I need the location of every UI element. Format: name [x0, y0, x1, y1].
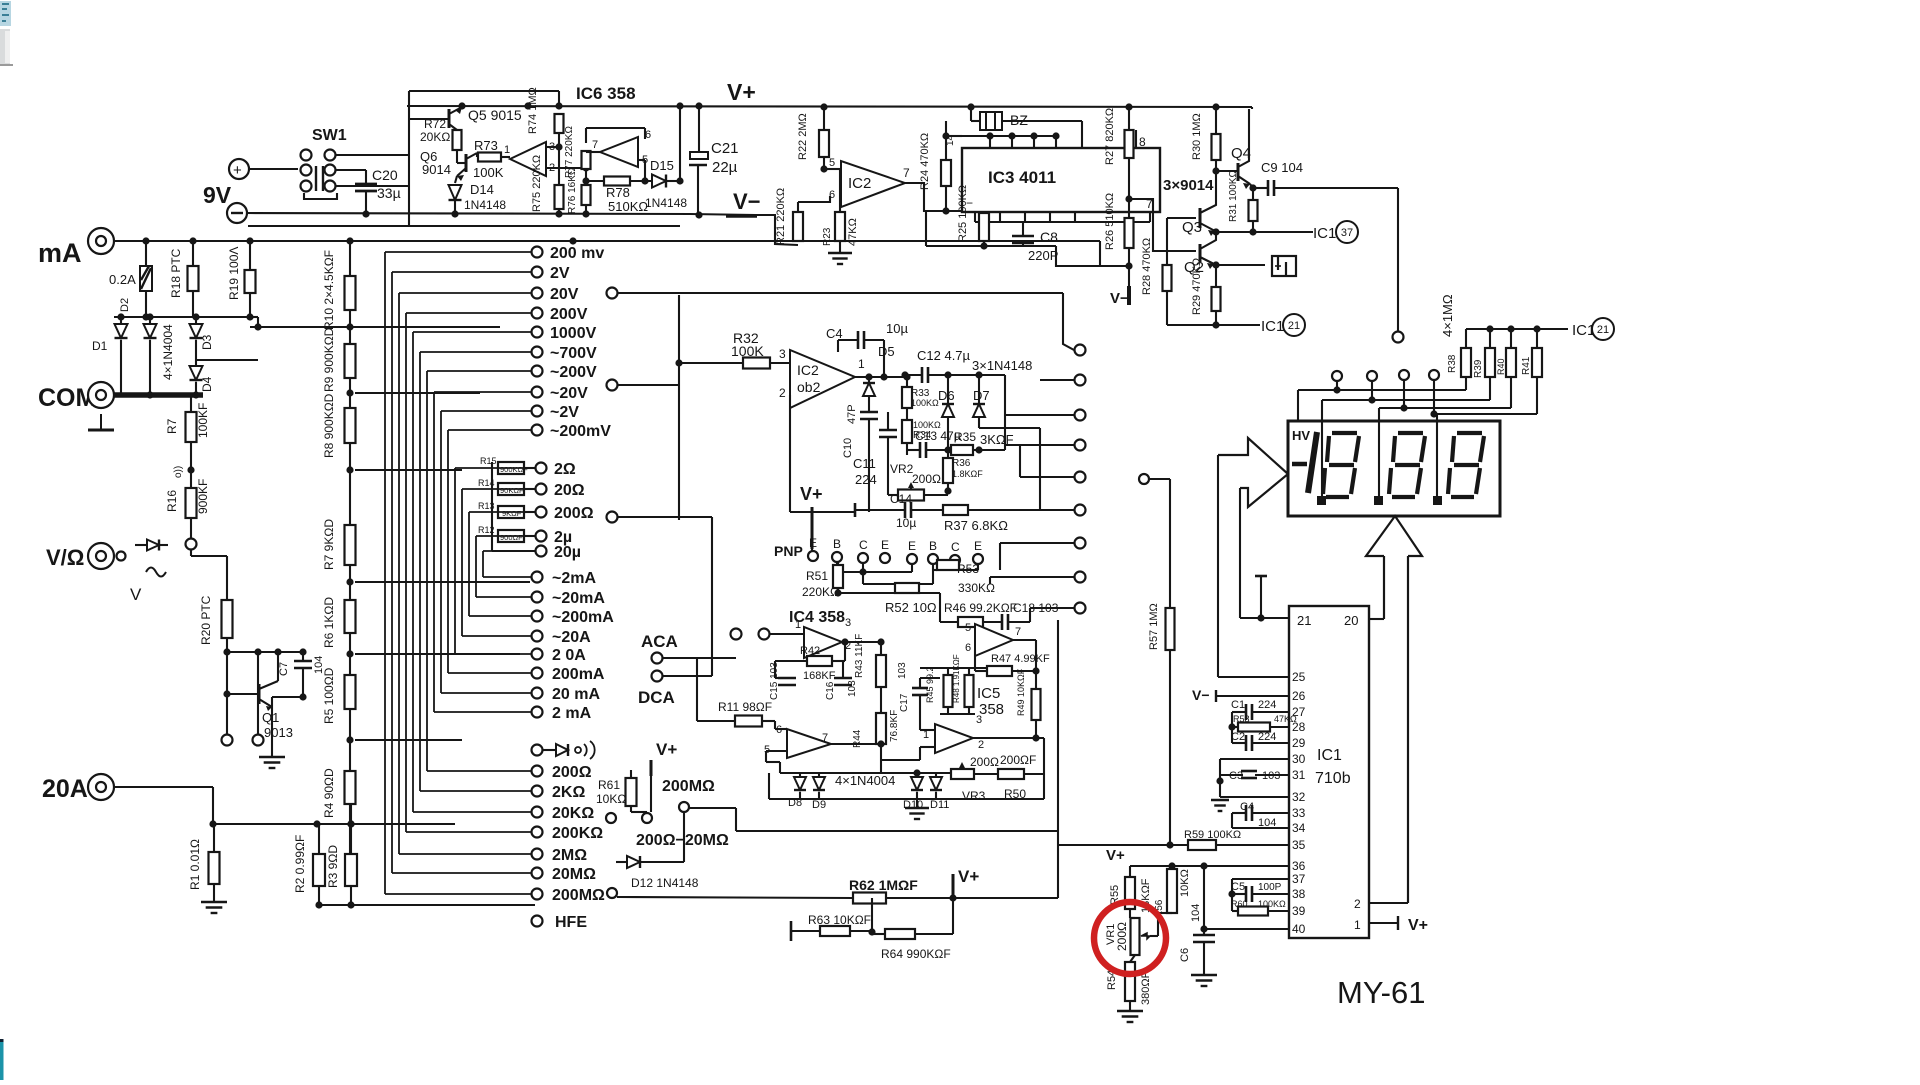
wire: [249, 168, 298, 170]
transistor Q1 9013: [258, 684, 261, 704]
svg-text:R57 1MΩ: R57 1MΩ: [1148, 603, 1160, 650]
selector contact ~20A: [532, 631, 543, 642]
wire pin2: [1369, 902, 1408, 904]
resistor R3 9D: [345, 854, 357, 886]
resistor R77 220K: [582, 151, 591, 169]
svg-text:V: V: [130, 585, 142, 604]
svg-text:224: 224: [1258, 699, 1276, 711]
wire: [349, 633, 351, 675]
svg-text:30: 30: [1292, 752, 1306, 766]
display decimal points: [1317, 496, 1326, 505]
svg-text:R4 90ΩD: R4 90ΩD: [322, 768, 336, 818]
svg-text:47P: 47P: [846, 404, 858, 424]
svg-text:R6 1KΩD: R6 1KΩD: [322, 597, 336, 648]
svg-text:9KΩF: 9KΩF: [502, 509, 522, 518]
svg-text:R35: R35: [954, 430, 976, 444]
diode D2: [149, 317, 151, 324]
svg-text:200MΩ: 200MΩ: [552, 887, 605, 904]
diode D9: [818, 773, 820, 777]
svg-text:26: 26: [1292, 689, 1306, 703]
wire display seg1: [1336, 381, 1338, 390]
svg-text:20KΩ: 20KΩ: [552, 805, 594, 822]
resistor R52 10: [895, 583, 919, 593]
wire: [770, 633, 804, 635]
selector contact 200KΩ: [532, 827, 543, 838]
wire: [607, 380, 618, 391]
resistor R25 100K: [979, 213, 989, 241]
svg-text:200Ω−20MΩ: 200Ω−20MΩ: [636, 832, 729, 849]
transistor Q5 9015: [448, 109, 451, 128]
svg-text:358: 358: [979, 701, 1004, 718]
resistor R73 100K: [477, 156, 478, 158]
wire: [546, 167, 586, 169]
svg-text:168KF: 168KF: [803, 670, 836, 682]
svg-text:200Ω: 200Ω: [970, 755, 999, 769]
ground: [905, 807, 929, 809]
svg-text:C6: C6: [1179, 948, 1191, 962]
svg-text:R72: R72: [424, 117, 446, 131]
display minus sign: [1292, 462, 1307, 467]
svg-text:R18 PTC: R18 PTC: [169, 248, 183, 298]
svg-text:R2 0.99ΩF: R2 0.99ΩF: [293, 835, 307, 893]
resistor R14 90KF: [498, 483, 524, 495]
selector contact 2KΩ: [532, 786, 543, 797]
svg-text:900ΩF: 900ΩF: [500, 533, 523, 542]
svg-text:20µ: 20µ: [554, 544, 581, 561]
svg-text:R19 100Λ: R19 100Λ: [227, 247, 241, 300]
svg-text:~2V: ~2V: [550, 404, 579, 421]
svg-text:2: 2: [779, 386, 786, 400]
svg-text:R39: R39: [1473, 359, 1484, 378]
svg-text:V+: V+: [1408, 917, 1428, 934]
wire: [349, 378, 351, 408]
svg-text:7: 7: [822, 732, 828, 744]
ground: [259, 756, 285, 758]
resistor R21 220K: [793, 212, 803, 241]
resistor R76 16K: [582, 185, 591, 205]
svg-text:10µ: 10µ: [886, 321, 908, 336]
svg-text:200KΩ: 200KΩ: [552, 825, 603, 842]
svg-text:R3 9ΩD: R3 9ΩD: [326, 845, 340, 888]
svg-text:V−: V−: [733, 189, 761, 214]
resistor R75 220K: [558, 147, 560, 185]
svg-text:21: 21: [1297, 613, 1311, 628]
op-amp IC5b: [975, 624, 1013, 656]
svg-text:200Ω: 200Ω: [554, 505, 594, 522]
op-amp IC6b: [600, 137, 638, 167]
svg-text:ob2: ob2: [797, 379, 821, 395]
svg-text:IC2: IC2: [848, 175, 871, 192]
svg-text:2Ω: 2Ω: [554, 461, 576, 478]
svg-text:20Ω: 20Ω: [554, 482, 585, 499]
wire: [1397, 188, 1399, 331]
svg-text:1: 1: [1354, 918, 1361, 932]
svg-text:5: 5: [829, 157, 835, 169]
svg-text:C20: C20: [372, 167, 398, 183]
svg-text:R47 4.99KF: R47 4.99KF: [991, 653, 1050, 665]
svg-text:D2: D2: [119, 298, 131, 312]
svg-text:R61: R61: [598, 778, 620, 792]
svg-text:R20 PTC: R20 PTC: [199, 595, 213, 645]
svg-text:2V: 2V: [550, 265, 570, 282]
wire IC1-37: [1216, 231, 1313, 233]
svg-text:5: 5: [965, 622, 971, 634]
svg-text:8: 8: [1139, 135, 1146, 149]
svg-text:R15: R15: [480, 456, 497, 466]
svg-text:Q1: Q1: [262, 710, 279, 725]
svg-text:4×1N4004: 4×1N4004: [161, 324, 175, 380]
selector contact ~20mA: [532, 592, 543, 603]
resistor R13 9KF: [498, 506, 524, 518]
resistor R23 47K: [835, 212, 845, 241]
op-amp IC4b: [787, 729, 831, 758]
wire: [226, 638, 228, 652]
diode D10: [916, 773, 918, 777]
svg-text:~20V: ~20V: [550, 385, 588, 402]
svg-text:36: 36: [1292, 859, 1306, 873]
svg-text:D8: D8: [788, 797, 802, 809]
svg-text:4×1N4004: 4×1N4004: [835, 773, 895, 788]
resistor R78 510K: [604, 177, 630, 186]
svg-text:1.8KΩF: 1.8KΩF: [952, 469, 983, 479]
svg-text:IC2: IC2: [797, 362, 819, 378]
svg-text:2KΩ: 2KΩ: [552, 784, 585, 801]
wire: [349, 310, 351, 344]
svg-text:20A: 20A: [42, 775, 88, 803]
ground: [828, 252, 852, 254]
svg-text:R45 99.2: R45 99.2: [925, 666, 935, 703]
svg-text:C11: C11: [853, 456, 876, 471]
wire: [349, 709, 351, 771]
svg-text:103: 103: [897, 662, 908, 679]
ground: [1211, 799, 1229, 801]
svg-text:D7: D7: [973, 388, 990, 403]
wire: [630, 770, 632, 778]
svg-text:ACA: ACA: [641, 632, 678, 651]
resistor R7 100KF: [190, 395, 192, 412]
svg-text:2: 2: [978, 739, 984, 751]
svg-text:D1: D1: [92, 339, 108, 353]
svg-text:R50: R50: [1004, 787, 1026, 801]
svg-text:R28 470KΩ: R28 470KΩ: [1141, 238, 1153, 295]
svg-text:HFE: HFE: [555, 914, 587, 931]
selector contact 2µ: [536, 531, 547, 542]
capacitor C7 104: [302, 652, 304, 661]
svg-text:R1 0.01Ω: R1 0.01Ω: [188, 839, 202, 890]
svg-text:9013: 9013: [264, 725, 293, 740]
selector contact ~200mV: [532, 425, 543, 436]
arrow into display: [1218, 438, 1288, 507]
svg-text:~200mA: ~200mA: [552, 609, 614, 626]
wire: [190, 550, 192, 556]
svg-text:R78: R78: [606, 185, 630, 200]
svg-text:4×1MΩ: 4×1MΩ: [1440, 294, 1455, 337]
svg-text:2: 2: [1354, 897, 1361, 911]
svg-text:C7: C7: [278, 662, 290, 676]
svg-text:1000V: 1000V: [550, 325, 597, 342]
wire resistor group: [491, 462, 493, 540]
svg-text:R41: R41: [1521, 356, 1532, 375]
resistor R72 20K: [453, 130, 462, 150]
wire taps: [250, 326, 500, 328]
wire: [831, 743, 881, 745]
selector contact ~200mA: [532, 611, 543, 622]
svg-text:R36: R36: [952, 458, 971, 469]
display digit 1: [1308, 432, 1317, 493]
ground: [1117, 1010, 1143, 1012]
svg-text:R31 100KΩ: R31 100KΩ: [1228, 170, 1239, 222]
svg-text:37: 37: [1341, 227, 1353, 239]
svg-text:3: 3: [779, 347, 786, 361]
svg-text:1: 1: [858, 357, 865, 371]
resistor R53 330K: [937, 560, 959, 570]
resistor R28 470K: [1163, 265, 1172, 291]
svg-text:200Ω: 200Ω: [1115, 922, 1129, 951]
resistor R9 900KD: [345, 344, 356, 378]
svg-text:+: +: [233, 162, 242, 179]
svg-text:C: C: [951, 540, 960, 554]
svg-text:900KΩF: 900KΩF: [500, 465, 528, 474]
svg-text:31: 31: [1292, 768, 1306, 782]
svg-text:mA: mA: [38, 238, 82, 268]
svg-text:1N4148: 1N4148: [464, 198, 506, 212]
svg-text:D11: D11: [930, 799, 949, 811]
selector contact 2V: [532, 267, 543, 278]
svg-text:R74 1MΩ: R74 1MΩ: [527, 87, 539, 134]
resistor R5 100D: [345, 675, 356, 709]
svg-text:33: 33: [1292, 806, 1306, 820]
wire: [756, 215, 798, 245]
svg-text:R62 1MΩF: R62 1MΩF: [849, 877, 918, 893]
svg-text:R24 470KΩ: R24 470KΩ: [919, 133, 931, 190]
resistor R10 2x4.5KF: [349, 241, 351, 276]
svg-text:C17: C17: [899, 693, 910, 712]
resistor R39: [1485, 348, 1495, 377]
capacitor C11 224: [879, 429, 897, 432]
svg-text:C: C: [859, 538, 868, 552]
svg-text:10KΩ: 10KΩ: [1179, 869, 1191, 897]
svg-text:E: E: [974, 539, 982, 553]
svg-text:V−: V−: [1192, 687, 1210, 703]
wire: [145, 241, 147, 266]
svg-text:IC3 4011: IC3 4011: [988, 168, 1056, 187]
svg-text:R23: R23: [822, 227, 833, 246]
wire: [114, 240, 146, 242]
display digit 8 third: [1457, 431, 1482, 435]
capacitor C20 33u: [365, 170, 367, 184]
svg-text:R52 10Ω: R52 10Ω: [885, 600, 937, 615]
selector contact 200V: [532, 308, 543, 319]
diode D12: [616, 861, 627, 863]
resistor R64 990KF: [885, 929, 915, 939]
node D3-D4: [196, 359, 258, 361]
svg-text:20 mA: 20 mA: [552, 686, 600, 703]
svg-text:380ΩF: 380ΩF: [1140, 971, 1152, 1005]
diode D11: [935, 773, 937, 777]
svg-text:32: 32: [1292, 790, 1306, 804]
wire pin40: [1204, 928, 1289, 930]
svg-text:B: B: [929, 539, 937, 553]
svg-text:29: 29: [1292, 736, 1306, 750]
resistor R34 100K: [902, 420, 912, 443]
buzzer BZ: [970, 107, 972, 121]
svg-text:R7 9KΩD: R7 9KΩD: [322, 519, 336, 570]
svg-text:R9 900KΩD: R9 900KΩD: [322, 327, 336, 392]
svg-text:6: 6: [645, 129, 651, 141]
capacitor C21 22u: [698, 106, 700, 152]
display top terminals: [1332, 371, 1342, 381]
resistor R1 0.01: [209, 852, 220, 884]
wire: [190, 442, 192, 488]
resistor R22 2M: [823, 107, 825, 130]
selector contact 20Ω: [536, 484, 547, 495]
svg-text:R30 1MΩ: R30 1MΩ: [1191, 113, 1203, 160]
svg-text:R46 99.2KΩF: R46 99.2KΩF: [944, 601, 1017, 615]
wire pin32: [1220, 796, 1289, 798]
wire: [1002, 120, 1082, 122]
svg-text:C12 4.7µ: C12 4.7µ: [917, 348, 971, 363]
selector contact 20µ: [536, 546, 547, 557]
wire long risers top: [617, 292, 1063, 294]
svg-text:220KΩ: 220KΩ: [802, 585, 839, 599]
svg-text:V−: V−: [1110, 290, 1129, 307]
svg-text:C4: C4: [826, 326, 843, 341]
svg-text:47KΩ: 47KΩ: [1274, 714, 1297, 724]
svg-text:C2: C2: [1231, 731, 1245, 743]
svg-text:MY-61: MY-61: [1337, 975, 1425, 1010]
selector contact ~2V: [532, 406, 543, 417]
right contact column: [1075, 345, 1086, 356]
svg-text:R11 98ΩF: R11 98ΩF: [718, 700, 772, 714]
wire: [689, 807, 736, 809]
svg-text:D4: D4: [200, 376, 214, 392]
svg-text:B: B: [833, 537, 841, 551]
wire display seg2: [1371, 381, 1373, 400]
svg-text:R49 10KΩF: R49 10KΩF: [1016, 668, 1026, 716]
svg-text:R75 220KΩ: R75 220KΩ: [531, 155, 543, 212]
diode symbol: [135, 544, 147, 546]
wire COM bus: [114, 392, 203, 398]
svg-text:200V: 200V: [550, 306, 588, 323]
svg-text:C9 104: C9 104: [1261, 160, 1303, 175]
ground: [201, 901, 227, 903]
svg-text:100K: 100K: [473, 165, 504, 180]
contact: [1139, 474, 1149, 484]
resistor R36: [943, 458, 953, 483]
svg-text:D5: D5: [878, 344, 895, 359]
svg-text:710b: 710b: [1315, 770, 1351, 787]
svg-text:R40: R40: [1496, 358, 1506, 375]
svg-text:90KΩF: 90KΩF: [500, 486, 524, 495]
wire: [920, 667, 995, 669]
selector contact 20V: [532, 288, 543, 299]
svg-text:IC1: IC1: [1261, 318, 1284, 335]
svg-text:V+: V+: [656, 740, 677, 759]
svg-text:~20A: ~20A: [552, 629, 591, 646]
selector contact ~700V: [532, 347, 543, 358]
wire: [926, 245, 1056, 247]
svg-text:R5 100ΩD: R5 100ΩD: [322, 667, 336, 724]
svg-text:37: 37: [1292, 872, 1306, 886]
svg-text:R29 470KΩ: R29 470KΩ: [1191, 258, 1203, 315]
wire: [905, 183, 962, 211]
wire: [855, 376, 905, 378]
diode D1: [120, 317, 122, 324]
svg-text:224: 224: [1258, 731, 1276, 743]
svg-text:20V: 20V: [550, 286, 579, 303]
selector contact 1000V: [532, 327, 543, 338]
svg-text:E: E: [809, 536, 817, 550]
svg-text:R76 16KΩ: R76 16KΩ: [567, 167, 578, 214]
selector contact 200Ω: [532, 766, 543, 777]
svg-text:R25 100KΩ: R25 100KΩ: [957, 185, 969, 242]
wire: [811, 549, 813, 551]
svg-text:2 0A: 2 0A: [552, 647, 586, 664]
svg-text:R7: R7: [165, 418, 179, 434]
svg-text:V+: V+: [958, 867, 979, 886]
contact HFE: [532, 916, 543, 927]
resistor R27 820K: [1128, 107, 1130, 130]
svg-text:IC6 358: IC6 358: [576, 84, 636, 103]
display box: [1288, 421, 1500, 516]
svg-text:D3: D3: [200, 334, 214, 350]
wire: [456, 150, 458, 163]
wire: [824, 168, 840, 170]
svg-text:39: 39: [1292, 904, 1306, 918]
op-amp IC4a: [804, 627, 842, 658]
selector contact 20 mA: [532, 688, 543, 699]
svg-text:3×9014: 3×9014: [1163, 177, 1214, 194]
svg-text:o)): o)): [173, 466, 184, 478]
wire pin37: [1232, 878, 1289, 880]
wire: [190, 518, 192, 538]
svg-text:V+: V+: [727, 79, 756, 105]
svg-text:21: 21: [1288, 320, 1300, 332]
svg-text:510KΩ: 510KΩ: [608, 199, 648, 214]
svg-text:1N4148: 1N4148: [645, 196, 687, 210]
svg-text:R43 11KF: R43 11KF: [854, 634, 865, 678]
resistor R4 90D: [345, 771, 356, 804]
resistor R7 9KD: [345, 525, 356, 565]
selector contact 200Ω: [536, 507, 547, 518]
diode D4: [195, 360, 197, 366]
resistor R2 0.99F: [313, 854, 325, 886]
diode D14: [449, 185, 462, 200]
op-amp IC6a: [510, 142, 546, 176]
svg-text:R8 900KΩD: R8 900KΩD: [322, 393, 336, 458]
wire pin21 riser: [1239, 488, 1241, 618]
svg-text:47KΩ: 47KΩ: [847, 218, 859, 246]
svg-text:220P: 220P: [1028, 248, 1058, 263]
svg-text:200Ω: 200Ω: [552, 764, 592, 781]
svg-text:10KΩ: 10KΩ: [596, 792, 626, 806]
svg-text:C10: C10: [842, 438, 854, 458]
selector contact 200 mv: [532, 247, 543, 258]
svg-text:D15: D15: [650, 158, 674, 173]
svg-text:Q5 9015: Q5 9015: [468, 107, 522, 123]
svg-text:200mA: 200mA: [552, 666, 605, 683]
svg-text:R22 2MΩ: R22 2MΩ: [797, 113, 809, 160]
selector contact 200mA: [532, 668, 543, 679]
svg-text:R21 220KΩ: R21 220KΩ: [775, 188, 787, 245]
wire: [336, 154, 409, 156]
diode buzzer row: [532, 745, 543, 756]
svg-text:HV: HV: [1292, 428, 1310, 443]
svg-text:V/Ω: V/Ω: [46, 545, 84, 570]
wire: [317, 904, 535, 906]
wire pin20: [1369, 618, 1384, 620]
resistor R38: [1461, 348, 1471, 377]
